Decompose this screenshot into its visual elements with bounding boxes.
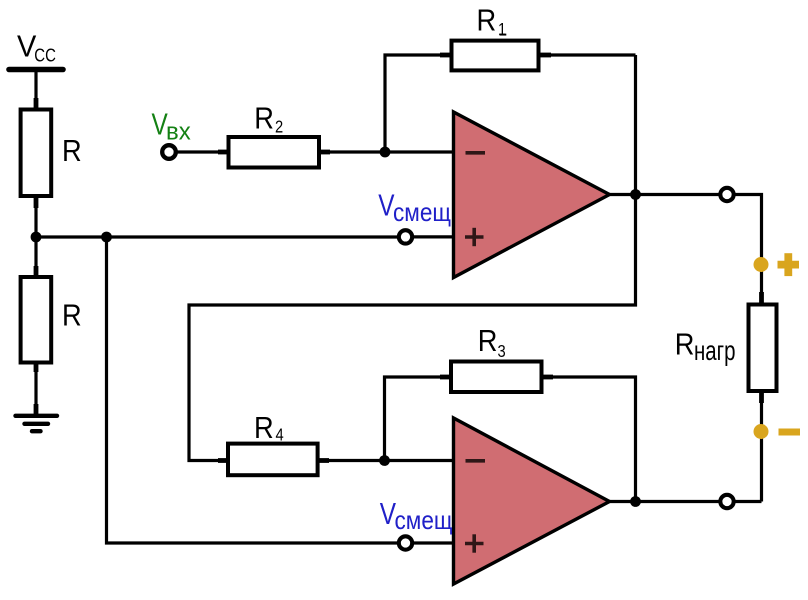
- svg-text:R: R: [478, 324, 498, 358]
- wire Vвх to R2: [176, 150, 228, 153]
- label R2: [254, 102, 283, 137]
- node A junction: [31, 232, 42, 243]
- label Rнагр: [675, 328, 736, 367]
- wire Vcc to R upper: [34, 70, 37, 111]
- wire node B down to lower bias: [107, 237, 400, 543]
- U2 inverting input marker: [466, 459, 486, 463]
- wire U2 output: [610, 500, 762, 503]
- wire node A bias rail horizontal: [36, 235, 399, 238]
- wire R3 to U2 output column: [543, 377, 636, 502]
- plus polarity sign: [778, 253, 800, 276]
- svg-text:3: 3: [498, 342, 506, 361]
- svg-text:R: R: [675, 328, 695, 362]
- svg-text:нагр: нагр: [694, 336, 735, 367]
- minus polarity sign: [779, 429, 801, 436]
- op-amp U1: [454, 112, 610, 278]
- svg-text:R: R: [62, 134, 82, 168]
- node plus polarity dot: [754, 257, 769, 272]
- svg-text:вх: вх: [166, 119, 191, 146]
- resistor R3: [451, 362, 542, 393]
- resistor R2: [229, 137, 320, 168]
- label R (upper): [62, 134, 82, 168]
- terminal Vсмещ (upper): [399, 230, 412, 243]
- label R3: [478, 324, 506, 361]
- label Vсмещ (lower): [380, 496, 453, 535]
- svg-text:CC: CC: [34, 45, 56, 66]
- wire Vсмещ upper to U1 plus: [412, 235, 454, 238]
- node U2 output junction: [630, 496, 641, 507]
- wire feedback up from node to R3: [385, 377, 452, 461]
- node minus polarity dot: [754, 424, 769, 439]
- label Vcc: [17, 30, 56, 66]
- svg-text:1: 1: [498, 20, 506, 39]
- terminal output upper: [720, 188, 733, 201]
- U1 non-inverting input marker: [465, 228, 484, 246]
- label R4: [254, 411, 284, 445]
- wire R upper to node A: [34, 198, 39, 277]
- wire R lower to ground: [34, 364, 39, 414]
- label Vсмещ (upper): [378, 188, 451, 227]
- node inverting input U1: [380, 147, 391, 158]
- power rail Vcc symbol: [9, 67, 63, 73]
- wire feedback up from node to R1: [385, 55, 451, 152]
- U2 non-inverting input marker: [465, 534, 484, 552]
- terminal Vвх: [162, 145, 176, 159]
- node inverting input U2: [379, 455, 390, 466]
- terminal Vсмещ (lower): [399, 536, 412, 549]
- wire output column down and across to R4 branch: [189, 55, 636, 461]
- wire load bottom: [759, 393, 764, 502]
- svg-text:R: R: [254, 411, 274, 445]
- svg-text:R: R: [254, 102, 274, 136]
- label Vвх: [152, 107, 191, 146]
- node B junction: [101, 232, 112, 243]
- wire terminal to load top: [734, 195, 762, 304]
- node U1 output junction: [630, 189, 641, 200]
- svg-text:смещ: смещ: [395, 507, 453, 536]
- svg-text:2: 2: [275, 118, 283, 137]
- ground: [16, 416, 58, 431]
- svg-text:R: R: [477, 4, 497, 38]
- wire Vсмещ lower to U2 plus: [412, 541, 454, 544]
- resistor R4: [228, 444, 318, 476]
- wire U1 output: [610, 193, 720, 196]
- U1 inverting input marker: [466, 151, 486, 155]
- wire R1 to output column: [541, 53, 636, 58]
- op-amp U2: [454, 418, 610, 584]
- svg-text:R: R: [62, 299, 82, 333]
- svg-text:смещ: смещ: [393, 198, 451, 227]
- wire R4 to inverting input node U2: [319, 458, 454, 463]
- label R1: [477, 4, 507, 39]
- label R (lower): [62, 299, 82, 333]
- wire R2 to inverting input node: [320, 150, 454, 155]
- resistor R1: [452, 41, 539, 71]
- terminal output lower: [720, 495, 733, 508]
- resistor Rнагр (load): [749, 305, 777, 392]
- resistor R (lower): [21, 266, 52, 363]
- resistor R (upper): [21, 110, 52, 197]
- svg-text:4: 4: [276, 425, 284, 444]
